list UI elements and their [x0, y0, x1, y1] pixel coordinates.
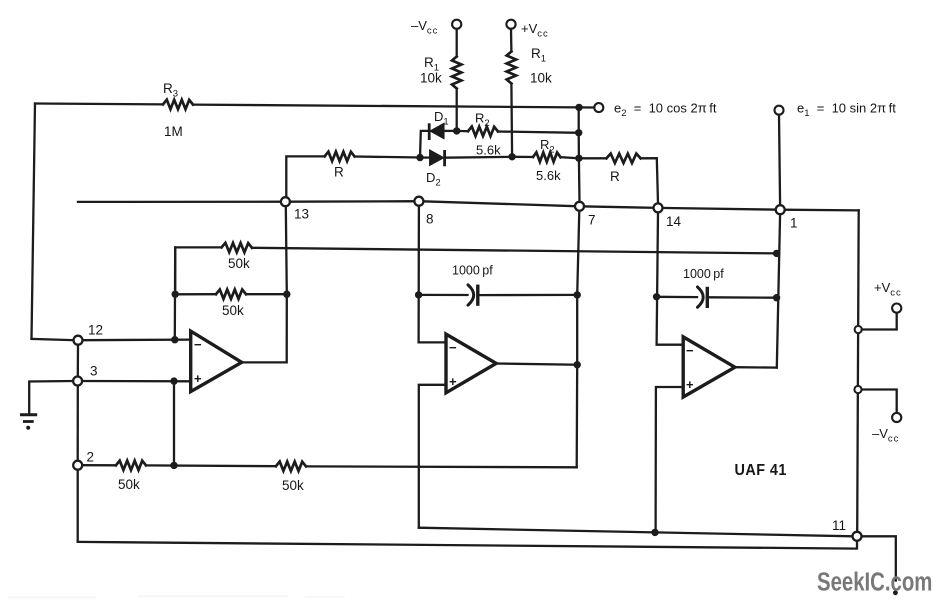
wire D1 anode: [444, 130, 457, 132]
wire -Vcc tap: [862, 390, 897, 413]
terminal -Vcc right: [892, 413, 901, 422]
wire 50k2 left stub: [175, 293, 216, 295]
svg-text:+Vcc: +Vcc: [874, 280, 902, 299]
pin 8: [414, 197, 423, 206]
wire D1 node to R2 top: [457, 130, 468, 133]
wire cap2 right lead: [709, 296, 777, 299]
svg-text:10k: 10k: [530, 71, 552, 86]
label e1 = 10 sin 2pi f t: [797, 101, 896, 120]
terminal e2 output: [594, 103, 603, 112]
svg-text:−: −: [449, 340, 457, 355]
node 50k2 left: [172, 291, 179, 298]
svg-text:5.6k: 5.6k: [536, 168, 561, 183]
svg-text:50k: 50k: [222, 303, 244, 318]
node pin2 row junction: [170, 462, 177, 469]
wire pin14 vertical: [657, 212, 684, 345]
scan artifact bottom-left: [8, 595, 345, 599]
node cap1 left: [415, 291, 422, 298]
wire bottom line A: [419, 528, 853, 537]
pin 3: [73, 377, 82, 386]
diode D2: [426, 150, 445, 189]
wire R3 line to e2 node: [193, 105, 594, 108]
wire 50k top long line to pin1 vertical: [252, 248, 777, 254]
svg-text:1M: 1M: [164, 124, 183, 139]
resistor 50k pin2 left: [116, 461, 146, 492]
label pin 1: [790, 216, 798, 231]
wire D2 to +Vcc node: [445, 156, 512, 159]
resistor R2 bottom 5.6k: [533, 137, 561, 183]
ground: [20, 415, 37, 430]
svg-text:50k: 50k: [118, 477, 140, 492]
wire R1 left to D1 node: [456, 89, 458, 131]
label pin 12: [88, 323, 103, 338]
node cap1 right: [574, 291, 581, 298]
resistor 50k feedback top: [222, 243, 252, 271]
wire op3 plus elbow: [656, 387, 684, 532]
label +Vcc top: [521, 21, 549, 40]
wire pin8 vertical: [419, 206, 446, 343]
pin 13: [281, 197, 290, 206]
wire op2 plus elbow: [419, 385, 446, 528]
wire cap2 left lead: [657, 296, 697, 299]
wire R2 bottom to pin7 vertical: [561, 157, 579, 158]
svg-text:14: 14: [666, 214, 682, 229]
resistor R left: [325, 152, 355, 180]
node cap2 right: [773, 294, 780, 301]
svg-text:1000 pf: 1000 pf: [452, 264, 493, 278]
op-amp A3: [683, 337, 735, 397]
wire pin7 vertical: [577, 107, 580, 467]
resistor 50k pin2 right: [276, 462, 306, 494]
wire R1 right down to D2 row: [510, 84, 513, 157]
wire cap1 right lead: [479, 294, 577, 297]
svg-text:+Vcc: +Vcc: [521, 21, 549, 40]
watermark SeekIC.com: [817, 567, 932, 596]
svg-text:5.6k: 5.6k: [476, 143, 501, 158]
pin 14: [654, 203, 663, 212]
wire 50k2 right stub: [246, 293, 287, 295]
label -Vcc right: [872, 426, 899, 445]
svg-text:–Vcc: –Vcc: [411, 18, 438, 37]
wire left border vertical: [32, 104, 36, 339]
node 50k2 right: [283, 291, 290, 298]
svg-text:13: 13: [294, 207, 309, 222]
node line A junction: [651, 529, 658, 536]
wire right supply rail: [857, 210, 859, 532]
node +Vcc tap: [855, 326, 862, 333]
svg-text:10k: 10k: [420, 71, 442, 86]
node -Vcc tap: [854, 386, 861, 393]
node R2 bottom right junction: [575, 155, 582, 162]
node cap2 left: [653, 293, 660, 300]
node D2 left junction: [416, 154, 423, 161]
svg-text:e2 = 10 cos 2π ft: e2 = 10 cos 2π ft: [614, 101, 717, 120]
svg-text:R2: R2: [475, 111, 490, 130]
wire R left to D2 node: [355, 157, 420, 158]
svg-text:+: +: [194, 371, 202, 386]
wire pin7 vert to R right: [579, 157, 607, 159]
node R2 top right junction: [575, 129, 582, 136]
wire R3 line left segment: [35, 102, 163, 105]
wire -Vcc to R1: [456, 29, 458, 57]
svg-text:+: +: [449, 374, 457, 389]
wire bottom line B: [78, 541, 857, 549]
wire pin2 to 50k: [82, 464, 116, 466]
node D1-R1 junction: [453, 127, 460, 134]
wire e1 to pin 1: [779, 115, 780, 206]
wire pin11 right elbow: [861, 536, 896, 580]
resistor R right: [606, 154, 640, 184]
label pin 14: [666, 214, 682, 229]
svg-text:D2: D2: [426, 170, 441, 189]
wire cap1 left lead: [419, 294, 468, 296]
svg-text:−: −: [686, 343, 694, 358]
svg-text:R1: R1: [531, 46, 546, 65]
wire plus junction vertical: [173, 381, 175, 465]
node bottom right dot: [893, 590, 898, 595]
wire pin13 vertical to op1 output: [242, 206, 287, 362]
svg-text:e1 = 10 sin 2π ft: e1 = 10 sin 2π ft: [797, 101, 896, 120]
svg-text:2: 2: [87, 450, 95, 465]
wire R right elbow to pin 14: [641, 158, 658, 203]
resistor 50k feedback bottom: [216, 290, 246, 319]
diode D1: [429, 109, 448, 140]
pin 7: [575, 202, 584, 211]
label pin 11: [832, 518, 846, 533]
terminal e1 output: [775, 106, 784, 115]
node feedback to pin1 vertical: [773, 250, 780, 257]
pin 12: [74, 336, 83, 345]
label pin 8: [426, 212, 434, 227]
label e2 = 10 cos 2pi f t: [614, 101, 717, 120]
svg-text:50k: 50k: [228, 256, 250, 271]
wire 50k feedback top elbow: [175, 247, 221, 294]
svg-text:8: 8: [426, 212, 434, 227]
svg-text:SeekIC.com: SeekIC.com: [817, 567, 932, 596]
capacitor C1 1000pf: [452, 264, 493, 306]
wire pin3 to op1 plus: [82, 380, 191, 383]
terminal +Vcc top: [506, 20, 515, 29]
node op2 output junction: [574, 361, 581, 368]
wire D2 anode stub: [420, 156, 430, 158]
svg-text:–Vcc: –Vcc: [872, 426, 899, 445]
svg-text:R: R: [334, 165, 344, 180]
wire pin3-pin2 vertical: [77, 385, 79, 461]
wire +Vcc tap: [862, 313, 897, 330]
wire op2 output: [496, 364, 577, 365]
op-amp A2: [446, 334, 496, 393]
node e2 junction: [575, 104, 582, 111]
svg-text:−: −: [194, 337, 202, 352]
node op1 minus junction: [171, 336, 178, 343]
label pin 2: [87, 450, 95, 465]
node pin3 row junction: [170, 377, 177, 384]
terminal -Vcc top: [452, 20, 461, 29]
op-amp A1: [191, 331, 242, 392]
wire IC pin line: [78, 201, 859, 210]
terminal +Vcc right: [892, 304, 901, 313]
wire pin3 to ground elbow: [29, 381, 73, 414]
wire op1 minus vertical: [174, 247, 177, 339]
wire D1 cathode elbow: [420, 131, 429, 158]
wire R2 top to pin7 vertical: [498, 132, 579, 133]
svg-text:+: +: [686, 377, 694, 392]
pin 11: [853, 532, 862, 541]
resistor R1 right 10k: [507, 46, 552, 86]
svg-text:1: 1: [790, 216, 798, 231]
wire pin12 to op1 minus: [82, 338, 190, 341]
wire +Vcc to R1: [510, 29, 513, 52]
svg-text:7: 7: [588, 213, 596, 228]
node +Vcc R1 junction: [508, 153, 515, 160]
wire pin13 up elbow: [286, 156, 324, 197]
wire to pin 12: [32, 339, 76, 340]
wire pin1 vertical: [777, 214, 780, 368]
label UAF 41: [735, 462, 787, 480]
wire +Vcc node to R2 bottom: [512, 156, 533, 158]
svg-text:R: R: [610, 169, 620, 184]
label +Vcc right: [874, 280, 902, 299]
pin 1: [776, 205, 785, 214]
label pin 7: [588, 213, 596, 228]
pin 2: [73, 461, 82, 470]
svg-text:R3: R3: [163, 81, 178, 100]
resistor R3: [163, 81, 193, 139]
wire pin12-pin3 vertical: [77, 345, 79, 377]
wire op3 output: [735, 366, 777, 369]
svg-text:50k: 50k: [282, 478, 304, 493]
svg-text:12: 12: [88, 323, 103, 338]
svg-text:11: 11: [832, 518, 846, 533]
label -Vcc top: [411, 18, 438, 37]
label pin 13: [294, 207, 309, 222]
resistor R2 top 5.6k: [468, 111, 501, 158]
capacitor C2 1000pf: [683, 267, 724, 308]
svg-text:1000 pf: 1000 pf: [683, 267, 724, 281]
wire 50k to junction: [146, 464, 276, 467]
label pin 3: [90, 364, 98, 379]
wire pin2 down elbow to line B: [77, 470, 79, 542]
resistor R1 left 10k: [420, 55, 461, 89]
svg-text:3: 3: [90, 364, 98, 379]
wire 50k right to op2 output vertical: [306, 465, 577, 468]
svg-text:UAF 41: UAF 41: [735, 462, 787, 480]
